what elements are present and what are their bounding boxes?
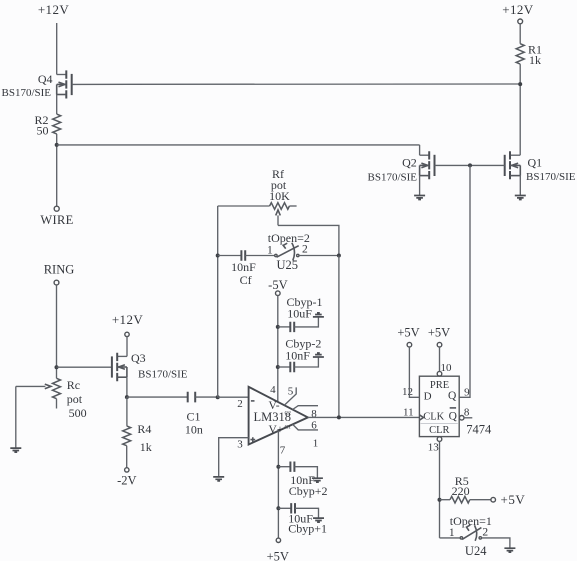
svg-text:R4: R4: [137, 422, 151, 436]
svg-text:8: 8: [311, 408, 317, 420]
wire Q4 gate to R1 node: [72, 83, 521, 85]
pin 5 stub: [284, 387, 296, 405]
svg-text:1: 1: [267, 245, 273, 257]
capacitor Cbyp+2 10nF: [278, 462, 327, 498]
transistor Q3: [112, 337, 188, 398]
svg-text:Cf: Cf: [240, 273, 252, 287]
pin 8 label and Qbar stub: [464, 417, 472, 419]
svg-text:9: 9: [464, 387, 470, 399]
wire R2 node to Q2 drain: [57, 144, 420, 146]
wire R2 to WIRE terminal: [56, 134, 58, 206]
wire +12V to Q4 drain: [56, 23, 58, 75]
svg-text:+5V: +5V: [267, 549, 289, 561]
wire switch to output node: [299, 255, 339, 257]
ground (Cbyp+2): [312, 478, 323, 482]
svg-text:-5V: -5V: [268, 278, 287, 292]
svg-text:50: 50: [37, 124, 49, 138]
wire gate node down to flip-flop pin 9: [459, 165, 470, 397]
svg-text:11: 11: [403, 407, 414, 419]
terminal +5V (R5): [491, 497, 496, 502]
svg-text:10n: 10n: [185, 423, 203, 437]
wire +5V to D: [409, 347, 419, 397]
node junction Cbyp-2: [276, 365, 280, 369]
svg-text:Cbyp+1: Cbyp+1: [288, 521, 327, 535]
svg-text:C1: C1: [186, 410, 200, 424]
svg-text:3: 3: [237, 439, 243, 451]
svg-text:BS170/SIE: BS170/SIE: [2, 87, 52, 99]
svg-text:500: 500: [69, 406, 87, 420]
ground (Rc wiper): [10, 448, 21, 452]
capacitor Cf 10nF: [218, 250, 275, 286]
svg-text:U24: U24: [465, 544, 487, 558]
wire -5V to op-amp pin 4: [277, 296, 279, 402]
node junction RING/Q3 gate: [55, 365, 59, 369]
wire output node vertical: [338, 256, 340, 418]
wire +5V to PRE bubble: [439, 347, 441, 371]
node junction R2/WIRE: [55, 143, 59, 147]
svg-text:tOpen=2: tOpen=2: [268, 231, 310, 245]
wire Q2 gate to node: [435, 164, 471, 166]
capacitor Cbyp-2 10nF: [278, 337, 322, 373]
pin 6 output wire to flip-flop CLK: [308, 416, 420, 418]
svg-text:V-: V-: [269, 400, 280, 412]
svg-text:7474: 7474: [466, 423, 492, 437]
svg-text:7: 7: [280, 445, 286, 457]
transistor Q1: [505, 151, 576, 195]
svg-text:Rc: Rc: [67, 378, 80, 392]
node junction R1 / Q4 gate: [518, 82, 522, 86]
svg-text:2: 2: [302, 244, 308, 256]
potentiometer Rc 500: [16, 378, 87, 420]
svg-text:RING: RING: [44, 263, 75, 277]
node junction gates / flip-flop Q: [468, 163, 472, 167]
svg-text:pot: pot: [67, 392, 83, 406]
svg-text:Q3: Q3: [131, 351, 146, 365]
flip-flop U2 7474: [419, 371, 492, 441]
svg-text:CLR: CLR: [429, 425, 449, 436]
svg-text:1: 1: [313, 437, 319, 449]
op-amp U1 LM318: [249, 387, 308, 445]
ground (Cbyp-2, flipped up): [313, 353, 324, 357]
wire node to Q1 gate: [470, 164, 505, 166]
transistor Q4: [2, 70, 72, 114]
svg-text:-2V: -2V: [117, 474, 136, 488]
svg-text:BS170/SIE: BS170/SIE: [138, 368, 188, 380]
ground (pin 3): [213, 477, 224, 481]
svg-text:Q: Q: [448, 390, 457, 402]
wire op-amp pin 3 to ground: [219, 438, 249, 477]
node junction Cbyp-1: [276, 325, 280, 329]
terminal -2V: [125, 468, 129, 472]
terminal +5V (pin 7): [276, 538, 280, 542]
wire U24 left: [440, 537, 461, 539]
wire RING node to Q3 gate: [57, 366, 112, 368]
svg-text:10uF: 10uF: [287, 306, 312, 320]
ground (Q1 source): [515, 196, 526, 200]
ground (Q2 source): [414, 196, 425, 200]
svg-text:+5V: +5V: [501, 492, 526, 507]
wire Rc wiper to ground: [15, 386, 17, 447]
svg-text:10: 10: [441, 362, 453, 374]
node junction Cf row left: [216, 254, 220, 258]
transistor Q2: [368, 145, 435, 195]
svg-text:10nF: 10nF: [285, 348, 310, 362]
capacitor C1 10n: [127, 392, 218, 437]
svg-text:V+: V+: [269, 424, 284, 436]
svg-text:Q: Q: [449, 411, 458, 423]
svg-text:CLK: CLK: [423, 412, 444, 423]
svg-text:+5V: +5V: [428, 326, 450, 340]
node junction output/feedback: [337, 415, 341, 419]
svg-text:12: 12: [402, 386, 413, 398]
capacitor Cbyp+1 10uF: [278, 503, 327, 535]
pin 1 stub: [293, 424, 318, 430]
svg-text:2: 2: [482, 527, 488, 539]
node junction C1 / feedback / pin2: [216, 395, 220, 399]
svg-text:C1: C1: [285, 425, 292, 431]
resistor R2: [34, 113, 60, 138]
svg-text:13: 13: [428, 441, 440, 453]
capacitor Cbyp-1 10uF: [278, 295, 323, 332]
wire Rf wiper to output node: [278, 225, 339, 255]
svg-text:C2: C2: [285, 411, 292, 417]
node junction Q3 source / C1 / R4: [125, 395, 129, 399]
terminal WIRE: [54, 206, 59, 211]
node junction feedback right: [337, 254, 341, 258]
svg-text:10nF: 10nF: [231, 260, 256, 274]
resistor R4 1k: [123, 397, 152, 468]
switch U25 tOpen=2: [267, 231, 310, 272]
svg-text:8: 8: [464, 407, 470, 419]
svg-text:2: 2: [237, 398, 243, 410]
svg-text:Q2: Q2: [402, 156, 417, 170]
svg-text:+12V: +12V: [502, 2, 534, 17]
resistor R1 1k: [516, 24, 542, 67]
svg-text:220: 220: [452, 484, 470, 498]
svg-text:4: 4: [270, 384, 276, 396]
wire node to op-amp pin 2: [218, 396, 249, 398]
potentiometer Rf pot 10K: [218, 167, 297, 225]
node junction Cbyp+1: [276, 506, 280, 510]
svg-text:BS170/SIE: BS170/SIE: [526, 171, 576, 183]
ground (Cbyp-1, flipped up): [313, 313, 324, 317]
svg-text:6: 6: [311, 420, 317, 432]
svg-text:PRE: PRE: [430, 380, 449, 391]
ground (Cbyp+1): [313, 518, 324, 522]
pin 8 stub: [293, 406, 318, 410]
svg-text:BS170/SIE: BS170/SIE: [368, 171, 418, 183]
svg-text:+5V: +5V: [397, 326, 419, 340]
svg-text:+12V: +12V: [112, 312, 144, 327]
pin 7 wire down to +5V: [277, 431, 279, 538]
node junction Cbyp+2: [276, 465, 280, 469]
svg-text:WIRE: WIRE: [40, 213, 73, 227]
switch U24 tOpen=1: [449, 514, 492, 558]
wire left vertical (pot to inverting node): [217, 206, 219, 397]
wire U24 right to ground: [482, 538, 510, 548]
ground (U24): [504, 548, 515, 552]
node junction CLR/R5/U24: [438, 498, 442, 502]
svg-text:10K: 10K: [269, 189, 290, 203]
svg-text:Q4: Q4: [38, 72, 53, 86]
svg-text:U25: U25: [277, 258, 299, 272]
resistor R5 220: [440, 474, 491, 503]
svg-text:+12V: +12V: [38, 2, 70, 17]
svg-text:D: D: [424, 391, 432, 403]
svg-text:1k: 1k: [529, 53, 541, 67]
wire R1 to Q1 drain: [519, 64, 521, 155]
wire RING down to Rc: [56, 285, 58, 378]
svg-text:5: 5: [288, 386, 294, 398]
svg-text:Cbyp+2: Cbyp+2: [289, 484, 328, 498]
svg-text:1k: 1k: [140, 440, 152, 454]
wire CLR to R5 node: [439, 441, 441, 538]
svg-text:Q1: Q1: [528, 156, 543, 170]
